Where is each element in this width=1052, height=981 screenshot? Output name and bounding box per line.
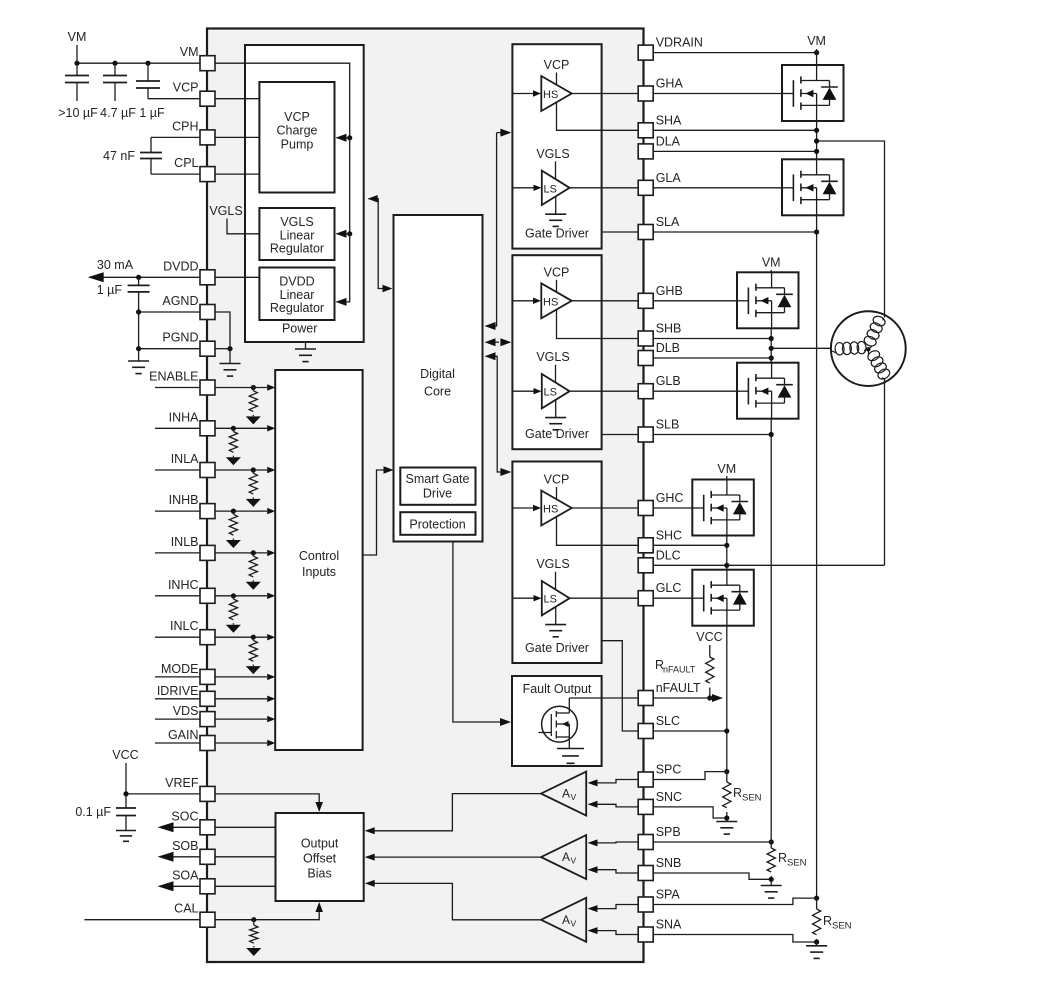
- wire CAL internal: [215, 902, 323, 920]
- pin SPC: [638, 763, 681, 788]
- wire VGLS to LS buffer A: [555, 161, 557, 179]
- label >10 uF: [58, 106, 98, 120]
- wire VDRAIN to VM: [653, 52, 816, 54]
- ground (VREF cap): [116, 831, 136, 842]
- svg-text:SLB: SLB: [656, 418, 680, 432]
- wire SOA output arrow: [158, 881, 201, 891]
- wire VGLS to LS buffer B: [555, 365, 557, 383]
- svg-text:Offset: Offset: [303, 852, 337, 866]
- svg-text:INLB: INLB: [171, 535, 199, 549]
- wire Fault Output to nFAULT pin: [569, 697, 638, 699]
- svg-text:VDRAIN: VDRAIN: [656, 36, 703, 50]
- svg-text:CPL: CPL: [174, 156, 198, 170]
- label 1 uF: [139, 106, 165, 120]
- resistor pulldown INLC: [246, 635, 261, 674]
- junction RSEN B bottom: [769, 877, 774, 882]
- ground (external filter): [128, 349, 149, 374]
- junction VM rail 3: [145, 61, 150, 66]
- wire INHC to Control Inputs: [215, 593, 275, 599]
- svg-text:V: V: [571, 918, 577, 928]
- svg-text:nFAULT: nFAULT: [656, 681, 701, 695]
- junction SHB: [769, 336, 774, 341]
- ground (AGND/PGND internal): [220, 349, 241, 376]
- resistor RSEN A: [812, 898, 820, 942]
- wire INLB external stub: [155, 552, 200, 554]
- wire SNC to AV C: [588, 801, 639, 808]
- node VM (phase C): [717, 462, 736, 480]
- svg-text:VGLS: VGLS: [280, 215, 313, 229]
- svg-text:1 µF: 1 µF: [97, 283, 123, 297]
- svg-text:Regulator: Regulator: [270, 301, 324, 315]
- wire DVDD pin to regulator: [215, 276, 259, 278]
- svg-text:LS: LS: [544, 594, 557, 606]
- wire SNA to RSEN A: [653, 935, 816, 943]
- svg-text:Drive: Drive: [423, 487, 452, 501]
- resistor RnFAULT: [706, 657, 714, 698]
- junction RSEN C bottom: [724, 815, 729, 820]
- svg-text:SHA: SHA: [656, 113, 682, 127]
- pin CPH: [172, 119, 215, 145]
- svg-text:IDRIVE: IDRIVE: [157, 684, 199, 698]
- wire SOA internal: [215, 885, 276, 887]
- label Gate Driver B: [525, 427, 589, 441]
- wire DLA to phase A: [653, 150, 816, 152]
- wire IDRIVE to Control Inputs: [215, 696, 275, 702]
- wire nFAULT to pullup: [653, 697, 710, 699]
- svg-text:LS: LS: [544, 183, 557, 195]
- svg-text:INLA: INLA: [171, 452, 199, 466]
- wire Digital Core to Gate Driver A: [485, 129, 512, 330]
- op-amp AV C: [541, 772, 586, 816]
- svg-text:Charge: Charge: [277, 124, 318, 138]
- pin GAIN: [168, 728, 215, 751]
- svg-text:DVDD: DVDD: [163, 259, 198, 273]
- svg-text:HS: HS: [543, 296, 558, 308]
- wire C SH sense: [557, 516, 639, 545]
- pin DLA: [638, 134, 680, 159]
- pin SNA: [638, 918, 682, 943]
- svg-text:ENABLE: ENABLE: [149, 370, 198, 384]
- svg-text:Control: Control: [299, 549, 339, 563]
- wire VDS external stub: [155, 718, 200, 720]
- junction VM rail at VCP CP: [347, 135, 352, 140]
- op-amp AV A: [541, 898, 586, 942]
- svg-text:GAIN: GAIN: [168, 728, 199, 742]
- wire CAL external stub: [84, 919, 200, 921]
- wire VCP pin to charge pump: [215, 98, 259, 100]
- resistor pulldown INHC: [226, 593, 241, 633]
- junction SPC tap: [724, 769, 729, 774]
- buffer HS B: [541, 283, 571, 318]
- wire VCP to HS buffer B: [556, 280, 558, 293]
- pin SOA: [172, 868, 215, 894]
- block VCP Charge Pump: [259, 82, 334, 193]
- svg-text:1 µF: 1 µF: [139, 106, 165, 120]
- wire SLC to Gate Driver C: [602, 641, 639, 731]
- junction SLC: [724, 728, 729, 733]
- transistor Q6 low-side C MOSFET: [692, 570, 754, 626]
- resistor pulldown INLA: [246, 467, 261, 507]
- pin GLB: [638, 374, 681, 399]
- node VCC (nFAULT pullup): [696, 630, 722, 657]
- svg-text:SHC: SHC: [656, 528, 682, 542]
- svg-text:VDS: VDS: [173, 704, 199, 718]
- wire GHA to Q1 gate: [653, 93, 782, 95]
- node VM (phase B): [762, 256, 781, 273]
- svg-text:VGLS: VGLS: [209, 204, 242, 218]
- svg-text:Bias: Bias: [307, 867, 331, 881]
- svg-text:A: A: [562, 850, 570, 864]
- wire VCP pin to 1uF cap: [148, 98, 200, 100]
- svg-text:Output: Output: [301, 837, 339, 851]
- svg-text:HS: HS: [543, 504, 558, 516]
- pin SHA: [638, 113, 682, 138]
- junction VM rail 1: [74, 61, 79, 66]
- svg-text:A: A: [562, 787, 570, 801]
- wire PGND external: [139, 348, 200, 350]
- pin AGND: [162, 294, 215, 320]
- svg-text:Gate Driver: Gate Driver: [525, 427, 589, 441]
- wire ext down to PGND: [138, 312, 140, 349]
- svg-text:VCP: VCP: [544, 58, 570, 72]
- resistor pulldown INHB: [226, 509, 241, 549]
- wire GLA to Q2 gate: [653, 187, 782, 189]
- label VCP (Gate Driver C): [544, 473, 570, 487]
- wire INHA to Control Inputs: [215, 425, 275, 431]
- ground (RSEN B): [761, 879, 782, 898]
- junction AGND ext: [136, 309, 141, 314]
- wire LS C output to GLC: [570, 597, 639, 599]
- svg-text:nFAULT: nFAULT: [663, 665, 696, 675]
- junction VDRAIN-VM: [814, 50, 819, 55]
- wire SPC to phase C: [653, 772, 727, 780]
- svg-text:SHB: SHB: [656, 322, 682, 336]
- buffer LS B: [542, 374, 570, 408]
- wire AGND external: [139, 311, 200, 313]
- svg-text:Pump: Pump: [281, 137, 314, 151]
- wire HS A output to GHA: [572, 93, 639, 95]
- pin SLC: [638, 714, 680, 739]
- resistor pulldown INLB: [246, 550, 261, 589]
- ground (Power block): [295, 342, 316, 362]
- wire SOC internal: [215, 826, 276, 828]
- wire AV C output: [365, 794, 541, 835]
- block VGLS Linear Regulator: [259, 208, 334, 260]
- pin DLC: [638, 548, 681, 573]
- svg-text:CPH: CPH: [172, 119, 198, 133]
- wire VGLS to LS buffer C: [555, 572, 557, 590]
- svg-text:VCP: VCP: [544, 473, 570, 487]
- svg-text:VGLS: VGLS: [536, 147, 569, 161]
- wire input HS A: [512, 90, 541, 96]
- capacitor >10 uF: [65, 63, 89, 101]
- junction phase A motor tap: [814, 138, 819, 143]
- wire Control Inputs to Digital Core: [363, 466, 394, 555]
- svg-text:SNB: SNB: [656, 856, 682, 870]
- pin VCP: [173, 81, 215, 107]
- label Gate Driver A: [525, 227, 589, 241]
- wire IDRIVE external stub: [155, 698, 200, 700]
- wire GHB to Q3 gate: [653, 300, 737, 302]
- svg-text:GLA: GLA: [656, 171, 682, 185]
- svg-text:GLC: GLC: [656, 581, 682, 595]
- wire input HS B: [512, 298, 541, 304]
- pin INHB: [169, 493, 215, 518]
- label VGLS (Gate Driver A): [536, 147, 569, 161]
- pin VM: [180, 45, 215, 70]
- wire INLC external stub: [155, 636, 200, 638]
- junction SLB: [769, 432, 774, 437]
- wire SHC to phase C: [653, 544, 727, 546]
- wire SNB to AV B: [588, 866, 639, 873]
- junction DLC: [724, 563, 729, 568]
- capacitor 1 uF (VCP): [136, 63, 160, 98]
- svg-text:Digital: Digital: [420, 367, 455, 381]
- wire B SH sense: [557, 309, 639, 339]
- junction RSEN A bottom: [814, 939, 819, 944]
- wire phase C source rail: [726, 626, 728, 772]
- arrow VM to DVDD regulator: [336, 298, 347, 306]
- resistor pulldown INHA: [226, 426, 241, 466]
- wire SLA to source rail: [653, 231, 816, 233]
- pin PGND: [162, 331, 215, 357]
- pin INLA: [171, 452, 215, 478]
- wire SPA to AV A: [588, 905, 639, 913]
- label Power: [282, 322, 317, 336]
- ground (Fault Output): [557, 749, 584, 764]
- svg-text:INHB: INHB: [169, 493, 199, 507]
- wire SNB to RSEN B: [653, 873, 771, 879]
- block Digital Core: [394, 215, 483, 542]
- svg-text:Gate Driver: Gate Driver: [525, 641, 589, 655]
- junction SPA tap: [814, 896, 819, 901]
- block Gate Driver B: [512, 255, 601, 449]
- wire Digital Core to Fault Output: [453, 542, 511, 727]
- pin SLB: [638, 418, 679, 443]
- wire VREF external: [126, 793, 200, 795]
- transistor fault-output FET: [539, 698, 578, 748]
- wire+arrow VM to VCP charge pump: [336, 134, 350, 142]
- pin MODE: [161, 662, 215, 685]
- svg-text:SOC: SOC: [171, 809, 198, 823]
- wire ENABLE external stub: [155, 387, 200, 389]
- junction DLA: [814, 149, 819, 154]
- svg-text:SNA: SNA: [656, 918, 682, 932]
- block Protection: [400, 512, 475, 535]
- junction DVDD-1uF: [136, 275, 141, 280]
- wire input LS C: [512, 595, 541, 601]
- pin SOC: [171, 809, 215, 835]
- pin DLB: [638, 341, 680, 366]
- svg-text:SPB: SPB: [656, 825, 681, 839]
- wire input LS B: [512, 388, 541, 394]
- junction VM rail at VGLS: [347, 231, 352, 236]
- wire Digital Core to Gate Driver C: [485, 352, 512, 476]
- resistor RSEN C: [723, 772, 731, 818]
- svg-text:VM: VM: [180, 45, 199, 59]
- wire SLC to source rail: [653, 730, 727, 732]
- wire SOB internal: [215, 856, 276, 858]
- IC body outline: [207, 29, 644, 963]
- pin SHB: [638, 322, 681, 347]
- svg-text:DLA: DLA: [656, 134, 681, 148]
- wire+arrow VM to VGLS regulator: [336, 230, 350, 238]
- wire CPH pin to charge pump: [215, 136, 259, 138]
- wire SOC output arrow: [158, 822, 201, 832]
- transistor Q1 high-side A MOSFET: [782, 65, 844, 121]
- svg-text:A: A: [562, 913, 570, 927]
- svg-text:>10 µF: >10 µF: [58, 106, 98, 120]
- wire AV B output: [365, 854, 541, 861]
- wire HS C output to GHC: [572, 507, 639, 509]
- label RSEN C: [733, 786, 762, 804]
- arrow nFAULT output: [710, 694, 723, 702]
- wire INLB to Control Inputs: [215, 550, 275, 556]
- buffer HS C: [541, 491, 571, 526]
- svg-text:VGLS: VGLS: [536, 557, 569, 571]
- pin SLA: [638, 215, 680, 240]
- svg-text:Inputs: Inputs: [302, 565, 336, 579]
- pin CPL: [174, 156, 215, 182]
- capacitor 1 uF (DVDD): [128, 277, 150, 312]
- svg-text:Protection: Protection: [409, 518, 465, 532]
- wire SNC to RSEN C: [653, 807, 727, 818]
- junction PGND ext: [136, 346, 141, 351]
- svg-text:Fault Output: Fault Output: [523, 682, 592, 696]
- transistor Q5 high-side C MOSFET: [692, 480, 754, 536]
- node VM (top-left supply): [68, 30, 87, 63]
- wire AGND internal: [215, 312, 230, 349]
- pin VREF: [165, 776, 215, 802]
- svg-text:AGND: AGND: [162, 294, 198, 308]
- wire AV A output: [365, 880, 541, 920]
- resistor pulldown ENABLE: [246, 385, 261, 425]
- label 0.1 uF: [75, 805, 111, 819]
- wire phase A drain: [816, 53, 818, 65]
- block Output Offset Bias: [276, 813, 364, 901]
- wire SLA to Gate Driver A: [602, 231, 639, 233]
- pin SPA: [638, 888, 680, 913]
- label VGLS (Gate Driver C): [536, 557, 569, 571]
- wire INHB external stub: [155, 510, 200, 512]
- svg-text:DVDD: DVDD: [279, 275, 314, 289]
- wire MODE to Control Inputs: [215, 674, 275, 680]
- svg-text:47 nF: 47 nF: [103, 149, 135, 163]
- svg-text:SOB: SOB: [172, 839, 198, 853]
- label RSEN B: [778, 851, 807, 869]
- wire HS B output to GHB: [572, 300, 639, 302]
- junction SHC: [724, 543, 729, 548]
- wire SPB to AV B: [588, 839, 639, 846]
- svg-text:VM: VM: [717, 462, 736, 476]
- pin GLC: [638, 581, 681, 606]
- wire SOB output arrow: [158, 852, 201, 862]
- wire SPB to phase B: [653, 841, 771, 843]
- svg-text:GHB: GHB: [656, 284, 683, 298]
- pin INLB: [171, 535, 215, 561]
- buffer LS C: [542, 581, 570, 615]
- svg-text:GHC: GHC: [656, 491, 684, 505]
- svg-text:SLC: SLC: [656, 714, 680, 728]
- pin GHA: [638, 77, 683, 102]
- pin IDRIVE: [157, 684, 215, 707]
- wire motor to DLC vertical: [884, 379, 886, 566]
- wire VCP to HS buffer A: [556, 73, 558, 86]
- junction VM rail 2: [112, 61, 117, 66]
- pin SHC: [638, 528, 682, 553]
- wire SNA to AV A: [588, 927, 639, 934]
- wire SPC to AV C: [588, 779, 639, 786]
- svg-text:VCP: VCP: [284, 110, 310, 124]
- wire GAIN to Control Inputs: [215, 740, 275, 746]
- svg-text:Smart Gate: Smart Gate: [406, 472, 470, 486]
- wire DLB to phase B: [653, 357, 771, 359]
- label 30 mA: [97, 258, 134, 272]
- ground (Gate Driver C): [545, 606, 566, 636]
- svg-text:V: V: [571, 856, 577, 866]
- svg-text:Power: Power: [282, 322, 317, 336]
- wire MODE external stub: [155, 676, 200, 678]
- wire GLB to Q4 gate: [653, 390, 737, 392]
- pin SOB: [172, 839, 215, 865]
- wire DVDD external with 30 mA arrow: [88, 272, 200, 282]
- wire input HS C: [512, 505, 541, 511]
- pin GHC: [638, 491, 683, 516]
- pin nFAULT: [638, 681, 701, 706]
- wire SPA to phase A: [653, 898, 816, 904]
- svg-text:MODE: MODE: [161, 662, 199, 676]
- transistor Q4 low-side B MOSFET: [737, 363, 799, 419]
- svg-text:DLB: DLB: [656, 341, 680, 355]
- junction SPB tap: [769, 839, 774, 844]
- buffer LS A: [542, 171, 570, 205]
- wire ENABLE to Control Inputs: [215, 384, 275, 390]
- svg-text:SPA: SPA: [656, 888, 681, 902]
- svg-text:VM: VM: [68, 30, 87, 44]
- block Power: [245, 45, 364, 342]
- resistor pulldown CAL: [246, 917, 261, 956]
- svg-text:R: R: [778, 851, 787, 865]
- wire DLC to motor: [653, 564, 884, 566]
- block Gate Driver A: [512, 44, 601, 248]
- svg-text:Regulator: Regulator: [270, 242, 324, 256]
- junction phase B motor tap: [769, 346, 774, 351]
- pin INHA: [169, 410, 215, 436]
- pin DVDD: [163, 259, 215, 285]
- ground (Gate Driver A): [545, 196, 566, 226]
- pin ENABLE: [149, 370, 215, 396]
- pin SPB: [638, 825, 681, 850]
- svg-text:SPC: SPC: [656, 763, 682, 777]
- wire INHA external stub: [155, 427, 200, 429]
- svg-text:R: R: [733, 786, 742, 800]
- pin GHB: [638, 284, 683, 309]
- wire phase B node: [770, 328, 772, 362]
- buffer HS A: [541, 76, 571, 111]
- wire PGND internal: [215, 348, 230, 350]
- junction DLB: [769, 355, 774, 360]
- wire GAIN external stub: [155, 742, 200, 744]
- label Gate Driver C: [525, 641, 589, 655]
- wire input LS A: [512, 185, 541, 191]
- svg-text:SEN: SEN: [832, 921, 852, 932]
- wire phase B to motor: [771, 347, 831, 349]
- label RnFAULT: [655, 658, 696, 675]
- svg-text:SNC: SNC: [656, 790, 682, 804]
- ground (RSEN A): [806, 942, 827, 958]
- pin GLA: [638, 171, 681, 196]
- wire INLC to Control Inputs: [215, 634, 275, 640]
